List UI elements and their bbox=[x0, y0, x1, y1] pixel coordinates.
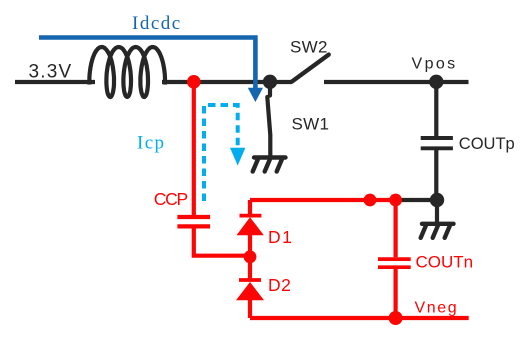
wire red switch-node to CCP bbox=[192, 82, 196, 215]
capacitor COUTn bbox=[378, 259, 411, 267]
wire red-rail to gnd node bbox=[398, 198, 437, 202]
node dot output gnd bbox=[430, 193, 444, 207]
node dot switch bbox=[263, 75, 277, 89]
arrowhead Icp bbox=[230, 148, 245, 166]
node dot rail left bbox=[364, 194, 377, 207]
capacitor CCP bbox=[177, 217, 210, 226]
svg-text:Icp: Icp bbox=[137, 133, 165, 154]
ground (SW1) bbox=[253, 158, 286, 172]
node dot red switch bbox=[187, 75, 201, 89]
wire 3.3V input bbox=[15, 80, 95, 84]
svg-text:Idcdc: Idcdc bbox=[132, 13, 182, 34]
svg-text:Vneg: Vneg bbox=[415, 300, 459, 317]
node dot Vpos bbox=[429, 75, 443, 89]
svg-text:SW1: SW1 bbox=[292, 114, 330, 133]
ground (output) bbox=[421, 224, 454, 238]
ground (output) stem bbox=[435, 200, 439, 222]
svg-text:D2: D2 bbox=[268, 275, 291, 295]
wire Vpos to COUTp bbox=[434, 82, 438, 136]
wire to Vpos bbox=[324, 80, 469, 84]
svg-text:COUTn: COUTn bbox=[416, 252, 474, 271]
inductor L bbox=[89, 47, 165, 97]
diode D1 bbox=[237, 200, 264, 257]
svg-text:Vpos: Vpos bbox=[412, 56, 458, 73]
switch SW1 blade bbox=[267, 88, 270, 156]
capacitor COUTp bbox=[421, 138, 453, 148]
wire COUTn bottom bbox=[394, 267, 398, 318]
node dot rail COUTn bbox=[389, 194, 402, 207]
wire Idcdc current path bbox=[39, 38, 255, 89]
wire CCP to D-node bbox=[194, 226, 250, 255]
svg-text:SW2: SW2 bbox=[290, 37, 328, 56]
svg-text:COUTp: COUTp bbox=[459, 135, 515, 153]
wire COUTp to gnd node bbox=[434, 148, 438, 200]
node dot diodes bbox=[244, 250, 257, 263]
wire top red rail bbox=[250, 198, 398, 202]
wire bottom red rail Vneg bbox=[250, 316, 469, 320]
node dot Vneg bbox=[389, 311, 403, 325]
wire COUTn top bbox=[394, 200, 398, 257]
dashed current loop Icp bbox=[204, 105, 238, 201]
wire switch-node bbox=[162, 80, 292, 84]
arrowhead Idcdc bbox=[248, 88, 263, 102]
diode D2 bbox=[236, 257, 264, 318]
svg-text:D1: D1 bbox=[268, 227, 293, 247]
svg-text:CCP: CCP bbox=[154, 189, 188, 209]
switch SW2 blade bbox=[292, 55, 329, 82]
svg-text:3.3V: 3.3V bbox=[29, 62, 73, 83]
